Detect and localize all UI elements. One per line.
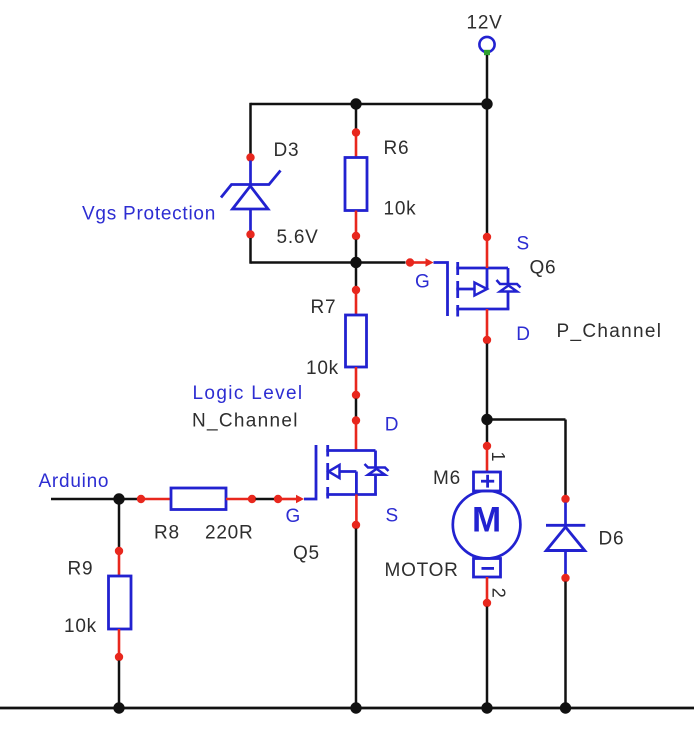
wire R9 red lead bottom	[118, 629, 121, 654]
wire Q5 drain red lead	[355, 424, 358, 451]
node pin dot gate Q6	[406, 258, 414, 266]
wire motor red lead bottom	[486, 577, 489, 600]
wire mid rail	[251, 261, 406, 264]
svg-text:10k: 10k	[306, 358, 339, 379]
wire D3 bottom lead	[249, 209, 252, 231]
svg-text:Arduino: Arduino	[39, 471, 110, 492]
node pin dot D6 bottom	[561, 574, 569, 582]
svg-text:P_Channel: P_Channel	[557, 321, 663, 342]
wire R7 red lead bottom	[355, 367, 358, 392]
wire R9 red lead top	[118, 555, 121, 577]
wire R6 red lead bottom	[355, 211, 358, 233]
svg-text:S: S	[517, 234, 530, 255]
node pin dot gate Q5	[274, 495, 282, 503]
wire gate red arrow Q6	[414, 258, 434, 266]
svg-text:N_Channel: N_Channel	[192, 411, 299, 432]
node junction Arduino	[113, 493, 124, 504]
svg-text:D6: D6	[599, 529, 625, 550]
svg-text:G: G	[415, 272, 431, 293]
wire R9 to ground	[118, 661, 121, 709]
svg-text:D: D	[385, 415, 399, 436]
node junction top mid	[350, 98, 361, 109]
node junction motor top	[481, 414, 492, 425]
node ground junction motor	[481, 702, 492, 713]
wire R7 red lead top	[355, 294, 358, 316]
node pin dot D3 bottom	[246, 230, 254, 238]
svg-text:5.6V: 5.6V	[277, 227, 319, 248]
transistor Q5 N-channel MOSFET	[304, 445, 389, 499]
node pin dot D3 top	[246, 153, 254, 161]
node pin dot Q6 drain	[483, 336, 491, 344]
node ground junction Q5	[350, 702, 361, 713]
node pin dot R6 bottom	[352, 232, 360, 240]
svg-text:10k: 10k	[64, 616, 97, 637]
wire R6 red lead top	[355, 136, 358, 158]
wire R6 bottom pin	[355, 240, 358, 264]
node pin dot R7 bottom	[352, 391, 360, 399]
wire D6 bottom lead	[564, 551, 567, 575]
node pin dot Q6 source	[483, 233, 491, 241]
node pin dot motor pin2	[483, 599, 491, 607]
node pin dot motor pin1	[483, 442, 491, 450]
svg-text:2: 2	[489, 588, 509, 599]
wire 12V to top rail	[486, 55, 489, 104]
svg-text:M6: M6	[433, 468, 461, 489]
node pin dot R7 top	[352, 286, 360, 294]
wire Arduino input	[51, 498, 138, 501]
wire gate red arrow Q5	[282, 495, 305, 503]
wire R8 red lead right	[226, 498, 249, 501]
resistor R6	[345, 158, 367, 211]
svg-text:220R: 220R	[205, 523, 253, 544]
node pin dot R9 top	[115, 547, 123, 555]
svg-text:Vgs Protection: Vgs Protection	[82, 204, 216, 225]
motor M6	[453, 472, 521, 577]
node pin dot R8 right	[248, 495, 256, 503]
node ground junction D6	[560, 702, 571, 713]
wire ground rail	[0, 707, 694, 710]
svg-text:R6: R6	[384, 138, 410, 159]
wire R6 top pin	[355, 104, 358, 129]
svg-text:12V: 12V	[467, 13, 503, 34]
wire motor to ground	[486, 607, 489, 709]
node pin dot R9 bottom	[115, 653, 123, 661]
svg-text:R9: R9	[68, 559, 94, 580]
node pin dot R8 left	[137, 495, 145, 503]
node pin dot R6 top	[352, 128, 360, 136]
wire Q5 source red lead	[355, 495, 358, 522]
wire D6 branch upper	[564, 420, 567, 496]
transistor Q6 P-channel MOSFET	[434, 262, 521, 317]
resistor R8	[171, 488, 226, 510]
svg-text:S: S	[386, 506, 399, 527]
svg-text:M: M	[472, 501, 502, 540]
svg-text:D: D	[516, 324, 530, 345]
svg-text:10k: 10k	[384, 199, 417, 220]
node pin dot D6 top	[561, 495, 569, 503]
svg-text:1: 1	[488, 452, 508, 463]
wire Q6 source red lead	[486, 241, 489, 269]
resistor R7	[346, 315, 367, 367]
wire R7 top pin	[355, 263, 358, 287]
wire D6 branch lower	[564, 582, 567, 709]
resistor R9	[109, 576, 132, 629]
wire Q6 drain to motor node	[486, 344, 489, 421]
node junction top right	[481, 98, 492, 109]
wire R7 to Q5	[355, 399, 358, 418]
svg-text:MOTOR: MOTOR	[385, 560, 459, 581]
wire D3 branch lower	[249, 238, 252, 264]
node pin dot Q5 source	[352, 521, 360, 529]
wire motor red lead top	[486, 450, 489, 473]
wire D6 top lead	[564, 503, 567, 526]
wire motor node to D6 branch	[487, 418, 566, 421]
node ground junction R9	[113, 702, 124, 713]
terminal 12V	[479, 37, 494, 55]
wire R9 top pin	[118, 499, 121, 548]
svg-text:D3: D3	[274, 140, 300, 161]
svg-text:G: G	[286, 506, 302, 527]
diode D6	[546, 525, 585, 550]
wire Q5 source to ground	[355, 529, 358, 709]
svg-text:Logic Level: Logic Level	[193, 383, 304, 404]
wire D3 top lead	[249, 161, 252, 186]
svg-text:R8: R8	[154, 523, 180, 544]
wire Q6 source column	[486, 104, 489, 234]
svg-text:R7: R7	[311, 297, 337, 318]
wire motor top pin	[486, 420, 489, 443]
zener diode D3	[221, 171, 281, 210]
svg-text:Q6: Q6	[530, 258, 557, 279]
wire R8 red lead left	[145, 498, 172, 501]
node pin dot Q5 drain	[352, 416, 360, 424]
wire R8 to gate	[256, 498, 275, 501]
wire Q6 drain red lead	[486, 309, 489, 337]
wire D3 branch upper	[249, 103, 252, 154]
wire top rail	[251, 103, 488, 106]
node junction mid	[350, 257, 361, 268]
svg-text:Q5: Q5	[293, 543, 320, 564]
